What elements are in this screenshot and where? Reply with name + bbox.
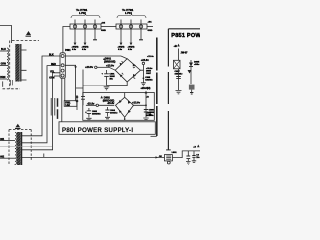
jack strip J801 body xyxy=(60,53,65,78)
ground below C804 xyxy=(105,117,110,119)
P791 right side labels xyxy=(148,22,153,32)
diode D805 xyxy=(190,60,192,69)
L801 column T-bar xyxy=(166,149,171,151)
T802 secondary wire D (long bottom rail) xyxy=(22,156,165,158)
svg-text:+23.8v: +23.8v xyxy=(85,65,94,69)
barrier bar 1 x156.8 xyxy=(156,38,158,137)
ground below C810 xyxy=(186,162,191,165)
dashed bottom edge of T801 shield box xyxy=(3,88,21,90)
T801 bottom stubs xyxy=(10,80,12,85)
svg-text:+B: +B xyxy=(174,44,178,48)
transformer T802 right bar xyxy=(21,132,23,165)
transformer T802 winding xyxy=(15,133,17,165)
wire +B column down xyxy=(178,69,180,90)
stray dashed tick left xyxy=(2,81,4,86)
T802 secondary wire C xyxy=(22,73,60,150)
fuse F801 box xyxy=(64,101,77,107)
ground below C803 xyxy=(86,118,91,120)
capacitor C810 xyxy=(187,151,189,161)
T801 tap labels xyxy=(0,48,6,79)
connector P781 block xyxy=(70,24,101,29)
P781 brace xyxy=(71,14,100,18)
svg-text:+23.6v: +23.6v xyxy=(141,58,150,62)
output labels left column x146 xyxy=(146,68,154,117)
bar1 bottom corner wire xyxy=(151,135,157,137)
short verticals mid-left xyxy=(51,98,55,116)
T801 secondary stubs xyxy=(21,50,26,80)
transformer T801 secondary bar xyxy=(20,44,22,82)
P791 pin3 ground bar xyxy=(140,29,142,40)
wire strip pin1 to bridge D801 top xyxy=(65,56,127,59)
svg-text:L704: L704 xyxy=(125,11,132,15)
svg-text:GND: GND xyxy=(101,30,106,32)
P791 brace xyxy=(117,14,146,18)
wire L801 to riser xyxy=(173,151,200,158)
rail label arrow xyxy=(156,156,159,158)
strip wire labels xyxy=(49,55,56,74)
svg-text:L702: L702 xyxy=(79,11,86,15)
wire D802 right vertex to +23.8v arrow xyxy=(134,94,147,106)
D801 label xyxy=(104,58,116,64)
dashed left edge of T801 shield box xyxy=(9,41,11,89)
wire diode column down xyxy=(190,69,192,84)
box with X (L802) xyxy=(174,60,181,69)
transformer T802 dashed box xyxy=(9,130,31,166)
wire bridge D801 bottom to C801 xyxy=(107,82,128,86)
wire strip bottom down xyxy=(61,78,63,121)
svg-text:25v: 25v xyxy=(196,157,200,159)
scan artifact line (faint) xyxy=(0,145,52,147)
+B output arrow top right xyxy=(197,145,200,148)
svg-text:(BRIDGE): (BRIDGE) xyxy=(103,100,115,103)
section box (lower) xyxy=(83,93,155,121)
wire D801 right vertex to +23.6v terminal xyxy=(140,65,143,71)
P781 left wire to strip xyxy=(63,27,70,53)
svg-text:JW: JW xyxy=(159,156,162,158)
thick barrier bar x57.5 xyxy=(57,98,59,119)
transformer T801 winding (primary, left) xyxy=(7,48,8,80)
svg-text:+23.8(H): +23.8(H) xyxy=(141,87,151,90)
svg-text:10/160v: 10/160v xyxy=(146,115,154,117)
label C807 xyxy=(175,71,184,75)
bridge D801 diamond xyxy=(115,59,140,82)
svg-text:1000/35v: 1000/35v xyxy=(92,113,102,115)
P781 title xyxy=(76,8,88,15)
D801 diodes xyxy=(120,63,137,78)
capacitor C806 xyxy=(145,104,147,106)
svg-text:100/35v: 100/35v xyxy=(145,79,153,81)
junction tick on rail xyxy=(43,154,45,158)
svg-text:BRN: BRN xyxy=(0,76,5,79)
bridge D802 diamond xyxy=(116,97,134,117)
switch SW801 column xyxy=(76,95,78,110)
wire right of P791 xyxy=(147,26,153,28)
P781 pin stubs up xyxy=(75,20,95,30)
capacitor C805 chain xyxy=(142,70,144,82)
svg-text:100/35v: 100/35v xyxy=(110,113,118,115)
T801 primary taps xyxy=(0,50,7,52)
svg-text:P801: P801 xyxy=(65,49,71,52)
P791 pin labels xyxy=(118,47,135,51)
L801 box xyxy=(164,155,172,161)
P781 pin3 ground bar xyxy=(94,29,96,40)
chassis arrow above T802 xyxy=(15,124,21,129)
svg-text:JW-07: JW-07 xyxy=(181,52,189,55)
svg-text:P851 POWER: P851 POWER xyxy=(171,33,200,39)
wire stub to strip pin4 xyxy=(54,75,60,77)
capacitor C811 column xyxy=(193,151,195,156)
connector P791 block xyxy=(116,24,147,29)
P851 box edge xyxy=(168,28,200,30)
transformer T802 core hatched xyxy=(17,132,21,165)
svg-text:GRN: GRN xyxy=(49,78,54,80)
P781 pin labels xyxy=(72,47,89,51)
T802 secondary wire B xyxy=(22,66,60,143)
P781 pin1 down arrow xyxy=(74,29,76,43)
T802 primary tap xyxy=(0,140,15,142)
P781 right side labels xyxy=(101,22,106,31)
transformer T801 core (hatched) xyxy=(15,44,19,82)
svg-text:GRN: GRN xyxy=(1,63,7,66)
wire top-left corner entry xyxy=(0,26,12,44)
svg-text:-23.8v: -23.8v xyxy=(87,101,95,105)
D802 label xyxy=(103,97,115,103)
P791 pin stubs up xyxy=(121,20,141,30)
svg-text:+23.6v: +23.6v xyxy=(147,56,155,58)
ground below C811 xyxy=(192,161,196,163)
T802 primary tap 2 xyxy=(0,157,15,159)
P791 title xyxy=(122,8,134,15)
capacitor C801 xyxy=(106,70,108,86)
svg-text:(BRIDGE): (BRIDGE) xyxy=(104,61,116,64)
jack strip pins xyxy=(61,55,64,58)
svg-text:+23.8v: +23.8v xyxy=(106,64,115,68)
svg-text:L801: L801 xyxy=(172,152,178,154)
T802 secondary wire A xyxy=(22,56,60,136)
ground below C805 xyxy=(141,83,146,86)
ground left (P851) xyxy=(176,91,182,94)
svg-text:C807: C807 xyxy=(146,73,152,75)
P781 pin2 down arrow xyxy=(84,29,86,43)
svg-text:BLU: BLU xyxy=(1,48,6,51)
svg-text:GND: GND xyxy=(148,30,153,32)
ground below C806 xyxy=(143,118,148,120)
svg-text:1.6A: 1.6A xyxy=(65,104,70,107)
capacitor C804 mid xyxy=(107,107,109,117)
D802 diodes xyxy=(119,100,131,113)
svg-text:+B5v: +B5v xyxy=(194,64,200,66)
wire between connectors xyxy=(101,26,116,28)
P791 pin1 down arrow xyxy=(120,29,122,43)
small dark box component xyxy=(189,85,195,90)
chassis arrow symbol top-left xyxy=(26,31,32,37)
P801 label box xyxy=(59,122,155,135)
svg-text:+23.6v: +23.6v xyxy=(132,100,141,104)
wire strip pin2 branch xyxy=(65,65,83,101)
dashed top edge of T801 shield box xyxy=(12,40,39,42)
P791 pin2 down arrow xyxy=(130,29,132,43)
ground below C801 xyxy=(104,87,110,90)
svg-text:P80I POWER SUPPLY-I: P80I POWER SUPPLY-I xyxy=(62,128,133,134)
capacitor C802 column xyxy=(82,70,84,106)
